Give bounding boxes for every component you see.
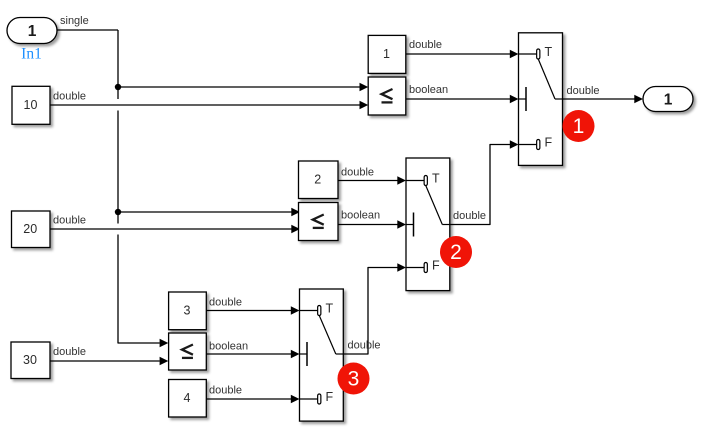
svg-text:10: 10 — [24, 98, 38, 112]
svg-text:double: double — [209, 385, 242, 397]
svg-text:double: double — [53, 215, 86, 227]
svg-text:T: T — [545, 45, 553, 59]
svg-text:T: T — [432, 172, 440, 186]
svg-text:20: 20 — [23, 222, 37, 236]
svg-text:In1: In1 — [21, 46, 42, 63]
svg-text:3: 3 — [348, 368, 360, 391]
svg-text:2: 2 — [450, 241, 462, 264]
svg-text:double: double — [409, 39, 442, 51]
svg-text:single: single — [60, 15, 89, 27]
svg-text:double: double — [341, 167, 374, 179]
svg-text:boolean: boolean — [209, 341, 248, 353]
svg-text:double: double — [567, 85, 600, 97]
svg-text:4: 4 — [183, 391, 190, 405]
svg-text:T: T — [326, 302, 334, 316]
svg-text:double: double — [348, 340, 381, 352]
svg-text:2: 2 — [314, 173, 321, 187]
svg-text:F: F — [545, 136, 553, 150]
svg-text:1: 1 — [664, 92, 673, 109]
svg-text:double: double — [53, 346, 86, 358]
svg-text:boolean: boolean — [341, 210, 380, 222]
svg-text:1: 1 — [383, 47, 390, 61]
svg-text:double: double — [209, 297, 242, 309]
svg-text:1: 1 — [573, 115, 585, 138]
svg-text:double: double — [453, 210, 486, 222]
svg-text:boolean: boolean — [409, 84, 448, 96]
svg-text:double: double — [53, 91, 86, 103]
svg-text:1: 1 — [28, 23, 37, 40]
svg-text:F: F — [432, 259, 440, 273]
svg-text:30: 30 — [23, 353, 37, 367]
svg-text:3: 3 — [183, 304, 190, 318]
svg-text:F: F — [326, 390, 334, 404]
